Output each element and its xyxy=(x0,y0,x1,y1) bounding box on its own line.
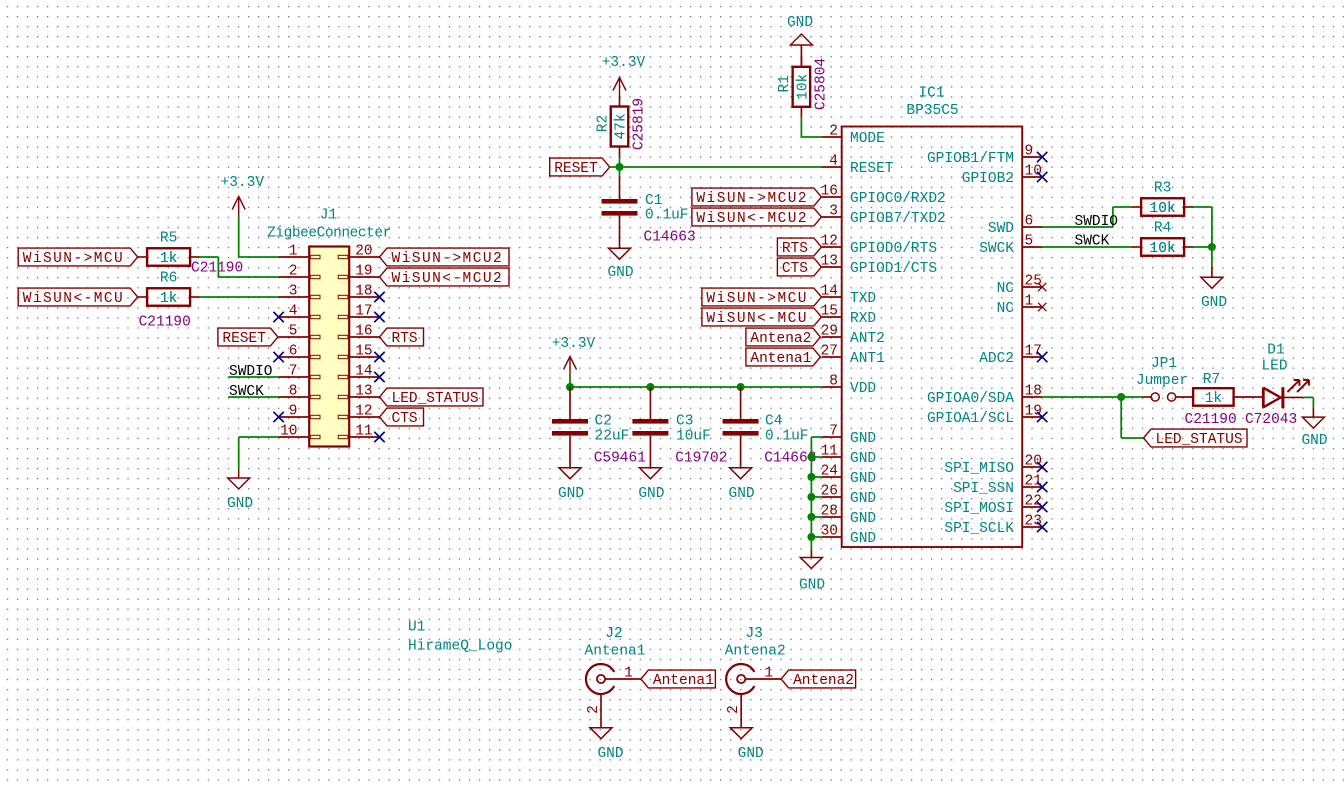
svg-text:SPI_SSN: SPI_SSN xyxy=(953,481,1014,497)
wire R3 to GND net xyxy=(1194,207,1212,247)
svg-text:TXD: TXD xyxy=(850,291,876,307)
junction GND chain at pin 26 xyxy=(807,493,815,501)
resistor R3 xyxy=(1132,198,1194,217)
no-connect X at IC pin 9 xyxy=(1037,152,1047,162)
svg-text:1: 1 xyxy=(764,665,773,681)
global label WiSUN<-MCU (left) xyxy=(18,288,138,307)
connector J3 pin 2 xyxy=(726,694,742,728)
svg-text:1: 1 xyxy=(624,665,633,681)
ic IC1 pin 25 NC xyxy=(997,273,1043,297)
capacitor C1 xyxy=(602,199,638,216)
wire +3.3V rail to IC pin 8 VDD xyxy=(570,377,822,388)
wire SWCK IC pin 5 to R4 xyxy=(1042,246,1131,248)
nc mark at IC pin 1 xyxy=(1038,303,1046,311)
svg-text:GPIOA0/SDA: GPIOA0/SDA xyxy=(927,391,1014,407)
wire junction to GND symbol xyxy=(1211,247,1213,277)
connector J1 pin 16 xyxy=(338,323,379,339)
svg-text:8: 8 xyxy=(829,373,838,389)
svg-text:JP1: JP1 xyxy=(1151,356,1177,372)
connector J1 pin 18 xyxy=(338,283,379,299)
svg-text:10k: 10k xyxy=(1150,241,1176,257)
svg-text:RTS: RTS xyxy=(392,331,418,347)
svg-text:C25804: C25804 xyxy=(814,58,830,110)
svg-text:C59461: C59461 xyxy=(594,450,646,466)
resistor R6 xyxy=(138,288,200,307)
svg-text:SWCK: SWCK xyxy=(1075,234,1110,250)
svg-text:14: 14 xyxy=(821,283,838,299)
svg-text:20: 20 xyxy=(355,243,372,259)
nc mark at IC pin 25 xyxy=(1038,283,1046,291)
resistor R5 xyxy=(138,248,200,267)
ground symbol below C3 xyxy=(639,468,661,479)
global label WiSUN->MCU at IC pin 14 xyxy=(702,288,822,307)
svg-text:C19702: C19702 xyxy=(675,450,727,466)
svg-text:27: 27 xyxy=(821,343,838,359)
svg-text:C4: C4 xyxy=(765,414,782,430)
svg-text:29: 29 xyxy=(821,323,838,339)
svg-text:HirameQ_Logo: HirameQ_Logo xyxy=(408,639,512,655)
svg-text:9: 9 xyxy=(289,403,298,419)
ic IC1 pin 17 ADC2 xyxy=(979,343,1042,367)
ground symbol above R1 (flipped) xyxy=(790,34,812,45)
ic IC1 pin 3 GPIOB7/TXD2 xyxy=(822,203,946,227)
svg-text:GND: GND xyxy=(1301,433,1327,449)
svg-text:ZigbeeConnecter: ZigbeeConnecter xyxy=(267,226,391,242)
connector J3 body xyxy=(726,664,754,694)
svg-text:SWCK: SWCK xyxy=(979,241,1014,257)
svg-text:+3.3V: +3.3V xyxy=(221,175,265,191)
svg-text:11: 11 xyxy=(355,423,372,439)
svg-text:GPIOD0/RTS: GPIOD0/RTS xyxy=(850,241,937,257)
svg-text:2: 2 xyxy=(586,705,602,714)
wire junction to C1 xyxy=(619,167,621,199)
connector J1 pin 3 xyxy=(279,283,320,299)
svg-text:18: 18 xyxy=(1025,383,1042,399)
ground symbol below C1 xyxy=(609,248,631,259)
svg-text:1: 1 xyxy=(289,243,298,259)
svg-text:C2: C2 xyxy=(595,414,612,430)
svg-text:10k: 10k xyxy=(1150,201,1176,217)
connector J1 pin 2 xyxy=(279,263,320,279)
wire C1 to GND xyxy=(619,216,621,249)
svg-text:GND: GND xyxy=(850,451,876,467)
svg-text:15: 15 xyxy=(355,343,372,359)
svg-text:IC1: IC1 xyxy=(918,86,944,102)
svg-text:RTS: RTS xyxy=(782,241,808,257)
svg-text:23: 23 xyxy=(1025,513,1042,529)
svg-text:C72043: C72043 xyxy=(1245,412,1297,428)
svg-text:12: 12 xyxy=(821,233,838,249)
connector J2 pin 1 xyxy=(605,665,641,681)
ground symbol below R3/R4 xyxy=(1201,277,1223,288)
svg-text:GND: GND xyxy=(799,578,825,594)
connector J1 pin 5 xyxy=(279,323,320,339)
wire IC pin 7 GND chain xyxy=(811,437,821,550)
svg-text:RESET: RESET xyxy=(222,331,266,347)
svg-text:25: 25 xyxy=(1025,273,1042,289)
svg-text:6: 6 xyxy=(1025,213,1034,229)
ic IC1 pin 11 GND xyxy=(821,443,877,467)
svg-text:1k: 1k xyxy=(160,251,177,267)
connector J1 pin 13 xyxy=(338,383,379,399)
ic IC1 pin 20 SPI_MISO xyxy=(944,453,1042,477)
svg-text:R4: R4 xyxy=(1154,221,1171,237)
svg-text:R2: R2 xyxy=(596,115,612,132)
resistor R4 xyxy=(1132,238,1194,257)
capacitor C3 xyxy=(632,419,668,436)
svg-text:Antena1: Antena1 xyxy=(750,351,811,367)
svg-text:+3.3V: +3.3V xyxy=(602,55,646,71)
svg-text:GND: GND xyxy=(227,496,253,512)
svg-text:2: 2 xyxy=(289,263,298,279)
ic IC1 pin 7 GND xyxy=(822,423,876,447)
svg-text:LED_STATUS: LED_STATUS xyxy=(1156,432,1243,448)
svg-text:WiSUN<-MCU2: WiSUN<-MCU2 xyxy=(696,211,808,227)
wire IC pin 18 to JP1 xyxy=(1042,396,1142,398)
svg-text:GND: GND xyxy=(597,746,623,762)
svg-text:10: 10 xyxy=(1025,163,1042,179)
connector J1 pin 12 xyxy=(338,403,379,419)
svg-text:GPIOB7/TXD2: GPIOB7/TXD2 xyxy=(850,211,946,227)
connector J3 pin 1 xyxy=(745,665,781,681)
svg-text:SPI_MOSI: SPI_MOSI xyxy=(944,501,1014,517)
svg-text:5: 5 xyxy=(289,323,298,339)
global label WiSUN<-MCU at IC pin 15 xyxy=(702,308,822,327)
connector J1 pin 17 xyxy=(338,303,379,319)
ground symbol below IC xyxy=(800,558,822,569)
wire R6 to J1 pin 3 xyxy=(200,296,279,298)
junction rail at C3 xyxy=(646,383,654,391)
no-connect X at IC pin 10 xyxy=(1037,172,1047,182)
svg-text:GND: GND xyxy=(850,431,876,447)
svg-text:10: 10 xyxy=(280,423,297,439)
svg-text:C21190: C21190 xyxy=(1185,412,1237,428)
no-connect X at J1 pin 14 xyxy=(374,372,384,382)
svg-text:2: 2 xyxy=(726,705,742,714)
svg-text:5: 5 xyxy=(1025,233,1034,249)
wire R7 to D1 xyxy=(1234,396,1263,398)
global label RESET at J1 pin 5 xyxy=(218,328,278,347)
power symbol +3.3V above R2 xyxy=(613,78,626,98)
ic IC1 pin 2 MODE xyxy=(822,123,885,147)
ground symbol below D1 xyxy=(1302,417,1324,428)
svg-text:28: 28 xyxy=(821,503,838,519)
wire RESET to IC pin 4 xyxy=(610,166,822,168)
jumper JP1 xyxy=(1143,393,1194,401)
svg-text:GND: GND xyxy=(787,15,813,31)
wire SWDIO to J1 pin 7 xyxy=(228,376,278,378)
svg-text:14: 14 xyxy=(355,363,372,379)
wire J1 pin 10 to GND xyxy=(239,437,279,478)
wire SWD IC pin 6 to R3 xyxy=(1042,207,1131,227)
connector J2 body xyxy=(586,664,614,694)
svg-text:47k: 47k xyxy=(614,113,630,139)
svg-text:SPI_MISO: SPI_MISO xyxy=(944,461,1014,477)
ic IC1 pin 18 GPIOA0/SDA xyxy=(927,383,1042,407)
connector J1 pin 8 xyxy=(279,383,320,399)
junction rail at C2 xyxy=(566,383,574,391)
global label Antena2 at J3 xyxy=(781,670,856,689)
svg-text:C21190: C21190 xyxy=(139,315,191,331)
svg-text:R7: R7 xyxy=(1203,372,1220,388)
wire GND chain to IC pin 24 xyxy=(811,476,821,478)
connector J1 pin 6 xyxy=(279,343,320,359)
wire GND chain to IC pin 28 xyxy=(811,516,821,518)
capacitor C4 xyxy=(723,419,759,436)
svg-text:7: 7 xyxy=(829,423,838,439)
connector J1 pin 11 xyxy=(338,423,379,439)
wire +3.3V to J1 pin 1 xyxy=(239,217,279,258)
svg-text:Antena2: Antena2 xyxy=(793,673,854,689)
resistor R1 xyxy=(793,57,811,117)
svg-text:ADC2: ADC2 xyxy=(979,351,1014,367)
svg-text:4: 4 xyxy=(829,153,838,169)
wire GND chain to ground xyxy=(810,550,812,558)
svg-text:22uF: 22uF xyxy=(595,429,630,445)
global label Antena1 at IC pin 27 xyxy=(746,348,821,367)
svg-text:U1: U1 xyxy=(408,620,425,636)
svg-text:WiSUN<-MCU: WiSUN<-MCU xyxy=(706,311,808,327)
svg-text:GND: GND xyxy=(558,486,584,502)
ic IC1 pin 8 VDD xyxy=(822,373,876,397)
ic IC1 pin 6 SWD xyxy=(988,213,1042,237)
svg-text:GND: GND xyxy=(1201,295,1227,311)
ic IC1 pin 24 GND xyxy=(821,463,877,487)
ic IC1 pin 30 GND xyxy=(821,523,877,547)
svg-text:VDD: VDD xyxy=(850,381,876,397)
no-connect X at J1 pin 17 xyxy=(374,312,384,322)
junction GND chain at pin 24 xyxy=(807,473,815,481)
svg-text:NC: NC xyxy=(997,301,1015,317)
connector J1 pin 1 xyxy=(279,243,320,259)
wire C2 to GND xyxy=(569,436,571,468)
svg-text:9: 9 xyxy=(1025,143,1034,159)
svg-text:17: 17 xyxy=(1025,343,1042,359)
connector J1 pin 20 xyxy=(338,243,379,259)
ground symbol below C2 xyxy=(559,468,581,479)
ic IC1 pin 4 RESET xyxy=(822,153,894,177)
wire C4 to GND xyxy=(740,436,742,468)
ic IC1 pin 28 GND xyxy=(821,503,877,527)
ic IC1 pin 12 GPIOD0/RTS xyxy=(821,233,937,257)
svg-text:GPIOB2: GPIOB2 xyxy=(962,171,1014,187)
svg-text:7: 7 xyxy=(289,363,298,379)
svg-text:15: 15 xyxy=(821,303,838,319)
svg-text:CTS: CTS xyxy=(392,411,418,427)
svg-text:GND: GND xyxy=(729,486,755,502)
svg-text:26: 26 xyxy=(821,483,838,499)
diode D1 LED xyxy=(1263,380,1309,408)
global label RTS at IC pin 12 xyxy=(777,238,821,257)
svg-text:RXD: RXD xyxy=(850,311,876,327)
svg-text:RESET: RESET xyxy=(850,161,894,177)
wire rail to C2 xyxy=(569,387,571,419)
svg-text:ANT2: ANT2 xyxy=(850,331,885,347)
svg-text:Jumper: Jumper xyxy=(1136,373,1188,389)
no-connect X at IC pin 22 xyxy=(1037,502,1047,512)
svg-text:GPIOC0/RXD2: GPIOC0/RXD2 xyxy=(850,191,946,207)
svg-text:WiSUN->MCU: WiSUN->MCU xyxy=(706,291,808,307)
no-connect X at IC pin 20 xyxy=(1037,462,1047,472)
svg-text:16: 16 xyxy=(355,323,372,339)
ic IC1 pin 29 ANT2 xyxy=(821,323,885,347)
connector J1 pin 15 xyxy=(338,343,379,359)
global label CTS at IC pin 13 xyxy=(777,258,821,277)
svg-text:10k: 10k xyxy=(795,74,811,100)
svg-text:J2: J2 xyxy=(605,626,622,642)
svg-text:6: 6 xyxy=(289,343,298,359)
svg-text:D1: D1 xyxy=(1267,343,1284,359)
global label LED_STATUS right xyxy=(1144,429,1248,448)
ic IC1 pin 15 RXD xyxy=(821,303,877,327)
svg-text:SWDIO: SWDIO xyxy=(1075,214,1119,230)
svg-text:22: 22 xyxy=(1025,493,1042,509)
svg-text:1: 1 xyxy=(1025,293,1034,309)
svg-text:WiSUN->MCU: WiSUN->MCU xyxy=(23,251,125,267)
ic IC1 pin 21 SPI_SSN xyxy=(953,473,1042,497)
ic U IC1 BP35C5 body xyxy=(842,127,1023,548)
ic IC1 pin 13 GPIOD1/CTS xyxy=(821,253,937,277)
svg-text:J1: J1 xyxy=(320,208,337,224)
svg-text:21: 21 xyxy=(1025,473,1042,489)
svg-text:LED: LED xyxy=(1261,359,1287,375)
svg-text:GND: GND xyxy=(850,511,876,527)
wire SWCK to J1 pin 8 xyxy=(228,396,278,398)
svg-text:Antena2: Antena2 xyxy=(725,644,786,660)
connector J1 pin 9 xyxy=(279,403,320,419)
global label WiSUN<-MCU2 at IC pin 3 xyxy=(692,208,822,227)
global label WiSUN->MCU2 at IC pin 16 xyxy=(692,188,822,207)
no-connect X at J1 pin 9 xyxy=(273,412,283,422)
svg-text:GND: GND xyxy=(850,491,876,507)
global label CTS at J1 pin 12 xyxy=(380,408,424,427)
global label WiSUN<-MCU2 at J1 pin 19 xyxy=(380,268,510,287)
no-connect X at IC pin 21 xyxy=(1037,482,1047,492)
no-connect X at J1 pin 4 xyxy=(273,312,283,322)
svg-text:30: 30 xyxy=(821,523,838,539)
svg-text:CTS: CTS xyxy=(782,261,808,277)
junction rail at C4 xyxy=(737,383,745,391)
svg-text:GND: GND xyxy=(607,265,633,281)
svg-text:WiSUN->MCU2: WiSUN->MCU2 xyxy=(696,191,808,207)
svg-text:BP35C5: BP35C5 xyxy=(906,103,958,119)
wire junction to LED_STATUS label xyxy=(1121,397,1143,438)
svg-text:17: 17 xyxy=(355,303,372,319)
svg-text:Antena2: Antena2 xyxy=(750,331,811,347)
svg-text:Antena1: Antena1 xyxy=(585,644,646,660)
no-connect X at IC pin 17 xyxy=(1037,352,1047,362)
svg-text:Antena1: Antena1 xyxy=(653,673,714,689)
svg-text:8: 8 xyxy=(289,383,298,399)
svg-text:4: 4 xyxy=(289,303,298,319)
svg-text:GND: GND xyxy=(850,531,876,547)
svg-text:GPIOA1/SCL: GPIOA1/SCL xyxy=(927,411,1014,427)
capacitor C2 xyxy=(552,419,588,436)
global label RESET near R2 xyxy=(550,158,610,177)
wire D1 to GND xyxy=(1283,397,1314,417)
svg-text:GND: GND xyxy=(738,746,764,762)
svg-text:+3.3V: +3.3V xyxy=(552,336,596,352)
global label WiSUN->MCU2 at J1 pin 20 xyxy=(380,248,510,267)
svg-text:WiSUN<-MCU: WiSUN<-MCU xyxy=(23,291,125,307)
no-connect X at J1 pin 11 xyxy=(374,432,384,442)
svg-text:WiSUN<-MCU2: WiSUN<-MCU2 xyxy=(392,271,504,287)
svg-text:GND: GND xyxy=(638,486,664,502)
ground symbol below J1 xyxy=(228,478,250,489)
no-connect X at J1 pin 18 xyxy=(374,292,384,302)
ic IC1 pin 27 ANT1 xyxy=(821,343,885,367)
svg-text:C14663: C14663 xyxy=(644,230,696,246)
junction R3/R4 GND xyxy=(1208,243,1216,251)
svg-text:C3: C3 xyxy=(676,414,693,430)
wire R2 to RESET net xyxy=(619,157,621,168)
connector J1 pin 14 xyxy=(338,363,379,379)
junction LED_STATUS branch xyxy=(1117,393,1125,401)
power symbol +3.3V above J1 xyxy=(232,197,245,217)
ground symbol below J3 xyxy=(730,728,752,739)
ic IC1 pin 14 TXD xyxy=(821,283,877,307)
svg-text:0.1uF: 0.1uF xyxy=(765,429,809,445)
wire GND chain to IC pin 11 xyxy=(811,456,821,458)
ic IC1 pin 22 SPI_MOSI xyxy=(944,493,1042,517)
ic IC1 pin 1 NC xyxy=(997,293,1043,317)
connector J1 pin 4 xyxy=(279,303,320,319)
global label Antena2 at IC pin 29 xyxy=(746,328,821,347)
svg-text:R5: R5 xyxy=(160,231,177,247)
svg-text:WiSUN->MCU2: WiSUN->MCU2 xyxy=(392,251,504,267)
junction GND chain at pin 30 xyxy=(807,533,815,541)
svg-text:13: 13 xyxy=(821,253,838,269)
wire R1 to IC pin 2 MODE xyxy=(801,117,821,137)
no-connect X at J1 pin 6 xyxy=(273,352,283,362)
ground symbol below C4 xyxy=(730,468,752,479)
svg-text:R1: R1 xyxy=(777,75,793,92)
svg-text:1k: 1k xyxy=(160,291,177,307)
svg-text:12: 12 xyxy=(355,403,372,419)
ic IC1 pin 5 SWCK xyxy=(979,233,1042,257)
junction GND chain at pin 11 xyxy=(807,453,815,461)
wire GND chain to IC pin 30 xyxy=(811,536,821,538)
junction RESET/R2/C1 xyxy=(616,163,624,171)
svg-text:SPI_SCLK: SPI_SCLK xyxy=(944,521,1014,537)
resistor R7 xyxy=(1193,388,1234,406)
svg-text:24: 24 xyxy=(821,463,838,479)
svg-text:2: 2 xyxy=(829,123,838,139)
svg-text:13: 13 xyxy=(355,383,372,399)
connector J1 pin 10 xyxy=(279,423,320,439)
global label Antena1 at J2 xyxy=(641,670,716,689)
ground symbol below J2 xyxy=(590,728,612,739)
wire C3 to GND xyxy=(649,436,651,468)
svg-text:GND: GND xyxy=(850,471,876,487)
wire R4 to GND net xyxy=(1194,246,1212,248)
connector J1 pin 19 xyxy=(338,263,379,279)
ic IC1 pin 10 GPIOB2 xyxy=(962,163,1042,187)
ic IC1 pin 16 GPIOC0/RXD2 xyxy=(821,183,946,207)
svg-text:18: 18 xyxy=(355,283,372,299)
wire GND chain to IC pin 26 xyxy=(811,496,821,498)
svg-text:19: 19 xyxy=(1025,403,1042,419)
connector J1 body ZigbeeConnecter xyxy=(309,247,349,447)
svg-text:R3: R3 xyxy=(1154,181,1171,197)
ic IC1 pin 19 GPIOA1/SCL xyxy=(927,403,1042,427)
svg-text:11: 11 xyxy=(821,443,838,459)
global label RTS at J1 pin 16 xyxy=(380,328,424,347)
svg-text:LED_STATUS: LED_STATUS xyxy=(392,391,479,407)
wire rail to C4 xyxy=(740,387,742,419)
svg-text:R6: R6 xyxy=(160,271,177,287)
svg-text:J3: J3 xyxy=(745,626,762,642)
